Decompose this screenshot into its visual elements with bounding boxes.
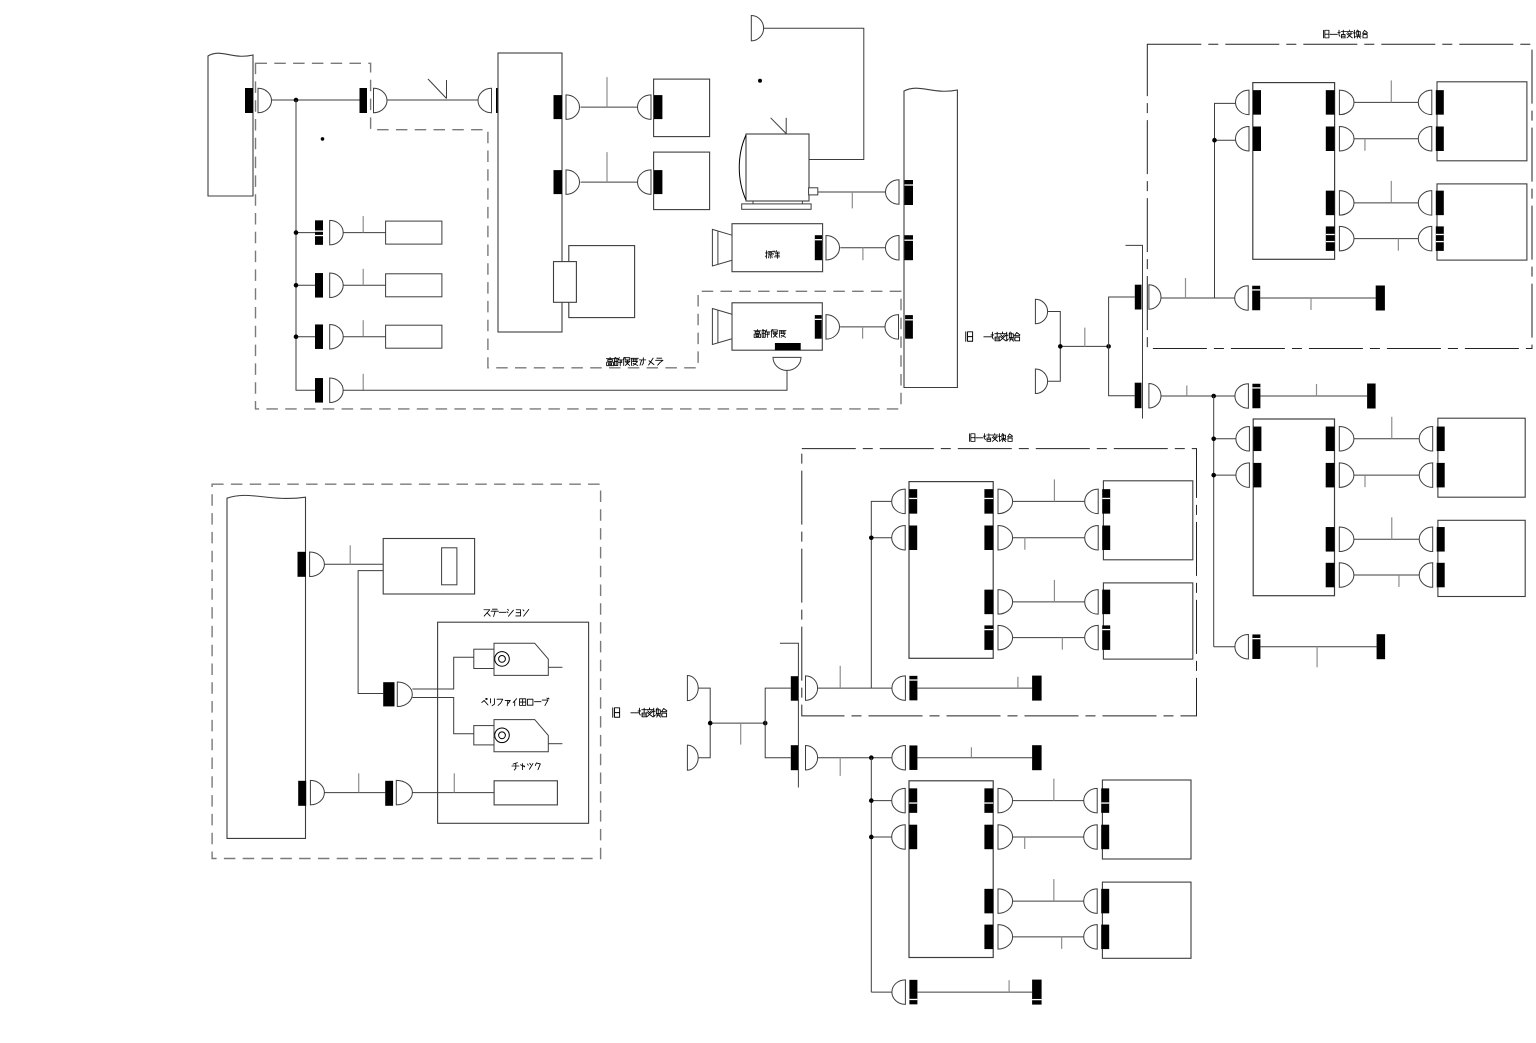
cluster right connector row 2 [984, 825, 993, 850]
connector jack (black) [1101, 889, 1109, 914]
cable plug dome B [1035, 369, 1047, 394]
row 1 device box [386, 221, 442, 244]
junction [294, 98, 299, 103]
tick [1316, 384, 1318, 396]
hub output connector [554, 95, 563, 119]
feed vertical [870, 758, 872, 992]
drop wire [358, 571, 383, 694]
patch cable [917, 687, 1032, 689]
junction [1211, 394, 1216, 399]
station connector 2 [385, 781, 393, 806]
probe body [494, 643, 548, 675]
left feed vertical [1215, 103, 1236, 298]
terminal box 2 [1437, 184, 1527, 260]
tick row 3 [1053, 879, 1055, 901]
connector plug (dome) [1084, 788, 1097, 813]
monitor connector [638, 95, 652, 120]
connector jack (black) [1437, 527, 1445, 552]
connector plug (dome) [1418, 90, 1431, 115]
cluster right connector row 3 [984, 889, 993, 914]
feed wire row 1 [871, 800, 891, 802]
CRT screen curve [739, 135, 746, 200]
patch cable [1260, 646, 1376, 648]
connector jack (black) [1102, 489, 1110, 514]
row 1 wire [343, 232, 385, 234]
tick row 4 [1398, 575, 1400, 587]
label kou-kaizoudo camera [606, 357, 663, 365]
wire row 1 [1354, 438, 1419, 440]
hub unit [498, 53, 562, 332]
left bus panel [208, 53, 253, 196]
connector jack (black) [909, 825, 917, 850]
wire [324, 792, 385, 794]
connector plug (dome) [1236, 427, 1250, 452]
bus connector [885, 315, 899, 340]
connector jack (black) [909, 745, 917, 770]
tick row 4 [1397, 239, 1399, 251]
wire to chuck [412, 792, 494, 794]
top cable connector [751, 16, 763, 41]
wire camera to bus [840, 247, 886, 249]
row 3 wire [343, 336, 385, 338]
tick [862, 248, 864, 261]
wire row 1 [1013, 800, 1084, 802]
tick row 3 [1053, 580, 1055, 602]
cluster central unit [909, 781, 993, 958]
wire camera to bus [840, 326, 886, 328]
wall line [780, 643, 799, 787]
tick row 1 [1390, 80, 1392, 102]
connector jack (black) [1437, 463, 1445, 488]
cluster right connector row 1 [984, 489, 993, 514]
wire hub to monitor [581, 181, 638, 183]
label IB ikkatsu-koukandai [966, 332, 973, 341]
cluster right connector row 1 [1326, 427, 1335, 452]
feed vertical [1213, 396, 1215, 647]
bus connector 2 [298, 781, 306, 806]
boundary connector 2 [1135, 383, 1142, 409]
CRT base [742, 204, 811, 209]
connector plug (dome) [1084, 925, 1098, 950]
camera body [732, 224, 823, 272]
connector plug (dome) [892, 676, 906, 701]
cable end jack [1377, 634, 1386, 659]
connector jack (black) [1253, 463, 1261, 488]
cluster right connector row 3 [1326, 191, 1335, 216]
tick [970, 747, 972, 757]
monitor connector [638, 170, 652, 195]
connector plug (dome) [1085, 489, 1099, 514]
station bus panel [227, 495, 306, 838]
tick [453, 773, 455, 792]
label station [484, 609, 529, 616]
connector plug (dome) [892, 980, 906, 1005]
CRT feet [752, 201, 754, 204]
feed wires [698, 688, 710, 758]
boundary wire [1161, 297, 1236, 299]
tick row 1 [1391, 417, 1393, 439]
left vertical feed wire [296, 100, 315, 390]
cable end jack [1032, 980, 1042, 1005]
camera lens [712, 229, 732, 266]
terminal box 2 [1438, 520, 1525, 596]
label IB ikkatsu koukandai (left) [613, 708, 620, 717]
tick [1310, 298, 1312, 310]
cluster central unit [1253, 419, 1334, 596]
connector plug (dome) [1419, 563, 1433, 588]
cluster right connector row 4 [984, 925, 993, 950]
feed wires [1048, 312, 1061, 382]
tick [1185, 278, 1187, 298]
wire row 2 [1354, 138, 1418, 140]
monitor box [654, 79, 710, 137]
bottom row wire [1214, 646, 1236, 648]
connector jack (black) [1102, 526, 1110, 551]
connector jack (black) [1252, 634, 1260, 659]
wire CRT tab to bus [818, 191, 886, 193]
probe cable [548, 743, 562, 745]
tick row 2 [1024, 538, 1026, 550]
probe nut [495, 652, 510, 667]
connector plug (dome) [1418, 191, 1432, 216]
remote inner key [442, 548, 457, 585]
label kyuu ikkatsu koukandai (middle) [969, 434, 1012, 442]
wire hub to monitor [581, 106, 638, 108]
row 2 junction [294, 283, 299, 288]
probe nut [495, 728, 510, 743]
connector jack (black) [1436, 191, 1444, 216]
cluster right connector row 3 [1326, 527, 1335, 552]
connector plug (dome) [892, 788, 905, 813]
wire tick [606, 77, 608, 107]
terminal box 1 [1437, 82, 1527, 161]
row 3 junction [294, 334, 299, 339]
tick [1008, 980, 1010, 992]
connector plug (dome) [892, 526, 905, 551]
cable end jack [1367, 384, 1376, 409]
CRT side tab [809, 188, 818, 195]
patch cable [917, 991, 1032, 993]
bus connector [245, 88, 253, 113]
connector jack (black) [909, 980, 917, 1005]
tick row 3 [1390, 181, 1392, 203]
tick [1316, 647, 1318, 668]
monitor box [654, 152, 710, 210]
connector jack (black) [1101, 825, 1109, 850]
connector plug (dome) [1084, 825, 1098, 850]
tick [358, 773, 360, 792]
cluster right connector row 2 [1326, 463, 1335, 488]
row 3 device box [386, 325, 442, 348]
connector plug (dome) [1236, 127, 1250, 152]
camera bottom jack [775, 343, 801, 350]
tick row 2 [1364, 139, 1366, 151]
label kyuu ikkatsu koukandai (top) [1323, 30, 1367, 38]
wire row 3 [1354, 538, 1419, 540]
connector plug (dome) [1418, 127, 1432, 152]
feed vertical [871, 501, 891, 688]
tick row 4 [1061, 638, 1063, 650]
tick row 3 [1391, 517, 1393, 539]
connector jack (black) [1252, 384, 1260, 409]
connector plug (dome) [1235, 634, 1249, 659]
probe shank [474, 726, 494, 745]
cable end jack [1376, 286, 1385, 311]
bus connector [885, 235, 899, 260]
connector plug (dome) [1236, 463, 1250, 488]
terminal box 2 [1102, 882, 1191, 958]
cluster right connector row 3 [984, 590, 993, 615]
patch cable [917, 757, 1032, 759]
connector jack (black) [1437, 427, 1445, 452]
boundary connector mid [791, 676, 798, 701]
exchange box middle (dash-dot) [802, 449, 1197, 716]
wire to remote [324, 563, 383, 565]
wire row 2 [1354, 474, 1419, 476]
cluster right connector row 1 [984, 788, 993, 813]
connector jack (black) [1436, 90, 1444, 115]
station box [438, 622, 589, 823]
remote box [383, 539, 474, 595]
CRT antenna [771, 118, 787, 134]
connector plug (dome) [1419, 463, 1433, 488]
connector jack (black) [909, 489, 917, 514]
cluster central unit [909, 482, 993, 659]
bottom row wire [871, 991, 893, 993]
connector plug (dome) [1235, 286, 1249, 311]
connector plug (dome) [892, 489, 906, 514]
tick [839, 758, 841, 776]
hub connector [478, 88, 492, 113]
camera bottom plug (dome) [773, 357, 801, 370]
long wire row4 to camera dome [343, 370, 787, 390]
connector jack (black) [1253, 90, 1261, 115]
camera body [732, 303, 822, 350]
connector plug (dome) [1085, 625, 1099, 650]
terminal box 2 [1103, 583, 1192, 659]
wire row 1 [1013, 500, 1085, 502]
tick row 2 [1024, 837, 1026, 849]
wire row 4 [1354, 238, 1418, 240]
tick [1186, 386, 1188, 397]
cluster right connector row 1 [1326, 90, 1335, 115]
feed wire row 2 [1214, 474, 1236, 476]
wire row 1 [1354, 101, 1418, 103]
row 2 device box [386, 274, 442, 297]
wire tick [606, 152, 608, 182]
connector plug (dome) [1419, 527, 1433, 552]
connector jack (black) [909, 788, 917, 813]
wall line [1126, 245, 1143, 418]
probe body [494, 720, 548, 752]
wire row 4 [1013, 936, 1084, 938]
cable slash mark [428, 79, 447, 99]
cluster right connector row 4 [1326, 226, 1335, 251]
wire row 3 [1354, 202, 1418, 204]
connector jack (black) [1253, 127, 1261, 152]
wire row 2 [1013, 836, 1084, 838]
row 2 wire [343, 284, 385, 286]
tick [851, 192, 853, 208]
feed wire row 2 [871, 836, 891, 838]
patch cable [1260, 297, 1376, 299]
tick row 2 [1364, 475, 1366, 487]
cable end jack [1032, 745, 1042, 770]
connector plug (dome) [1419, 427, 1433, 452]
wire row 3 [1013, 601, 1085, 603]
hub interface block [554, 262, 577, 303]
cluster right connector row 2 [1326, 127, 1335, 152]
connector jack (black) [1436, 226, 1444, 251]
camera lens [712, 309, 732, 345]
tick row 4 [1061, 937, 1063, 949]
boundary wire row0 [1161, 395, 1236, 397]
connector jack (black) [909, 526, 917, 551]
chuck box [494, 781, 557, 805]
row 1 connector [296, 232, 315, 234]
wire row 3 [1013, 900, 1084, 902]
row 1 tick [362, 216, 364, 233]
right bus panel [904, 88, 957, 387]
connector jack (black) [1101, 925, 1109, 950]
cable plug dome A [1035, 299, 1047, 324]
row 2 tick [362, 269, 364, 286]
wire CRT to top connector [764, 28, 864, 159]
camera connector [815, 235, 822, 260]
exchange box top-right (dash-dot) [1147, 44, 1532, 348]
boundary wire [818, 757, 892, 759]
station connector [383, 682, 394, 706]
row 1 junction [294, 230, 299, 235]
cable plug dome lower [687, 745, 698, 770]
boundary connector bottom [791, 745, 798, 770]
stray dot [758, 79, 762, 83]
label chuck [512, 763, 540, 770]
tick [1017, 677, 1019, 688]
row 4 connector [315, 378, 323, 403]
cluster central unit [1253, 83, 1335, 260]
terminal box 1 [1103, 481, 1192, 560]
boundary wire [818, 687, 892, 689]
row 4 tick [362, 374, 364, 391]
patch cable [1260, 395, 1367, 397]
label perifai probe [482, 698, 549, 706]
row 3 connector [296, 336, 315, 338]
wire row 4 [1013, 637, 1085, 639]
junction [869, 755, 874, 760]
wire row 2 [1013, 537, 1085, 539]
tick row 1 [1053, 779, 1055, 801]
terminal box 1 [1102, 780, 1191, 859]
connector plug (dome) [1418, 226, 1432, 251]
connector plug (dome) [892, 825, 905, 850]
wires to probes [412, 657, 473, 689]
probe cable [548, 666, 562, 668]
connector jack (black) [1437, 563, 1445, 588]
tick [740, 723, 742, 745]
connector plug (dome) [892, 745, 906, 770]
row 2 connector [296, 284, 315, 286]
tick [1084, 328, 1086, 347]
connector plug (dome) [1235, 384, 1249, 409]
bus connector [298, 552, 306, 577]
wire wall to hub [387, 99, 478, 101]
cable plug dome upper [687, 676, 698, 701]
connector jack (black) [1436, 127, 1444, 152]
room boundary (dashed) [256, 63, 902, 409]
stray dot [321, 137, 325, 141]
tick [839, 666, 841, 688]
wire bus to wall [272, 99, 360, 101]
terminal box 1 [1438, 418, 1525, 497]
connector jack (black) [1101, 788, 1109, 813]
probe shank [474, 649, 494, 668]
connector jack (black) [1102, 590, 1110, 615]
tick [349, 545, 351, 564]
connector plug (dome) [1236, 90, 1249, 115]
wire row 4 [1354, 574, 1419, 576]
hub accessory box [569, 246, 635, 318]
tick row 1 [1053, 479, 1055, 501]
connector plug (dome) [1084, 889, 1098, 914]
station room boundary (dashed) [212, 484, 600, 858]
connector plug (dome) [1085, 590, 1099, 615]
connector plug (dome) [1085, 526, 1099, 551]
connector jack (black) [909, 676, 917, 701]
tick [862, 327, 864, 339]
connector jack (black) [1102, 625, 1110, 650]
hub output connector [554, 170, 563, 194]
connector jack (black) [1253, 427, 1261, 452]
feed wire row 1 [1214, 438, 1236, 440]
cluster right connector row 4 [984, 625, 993, 650]
camera connector [815, 315, 822, 339]
row 3 tick [362, 320, 364, 337]
boundary connector 1 [1135, 285, 1142, 310]
CRT monitor body [746, 134, 809, 201]
connector jack (black) [1252, 286, 1260, 311]
bus connector (CRT) [886, 180, 900, 205]
wall feedthrough connector [360, 88, 368, 113]
cluster right connector row 4 [1326, 563, 1335, 588]
cable end jack [1032, 676, 1042, 701]
cluster right connector row 2 [984, 526, 993, 551]
